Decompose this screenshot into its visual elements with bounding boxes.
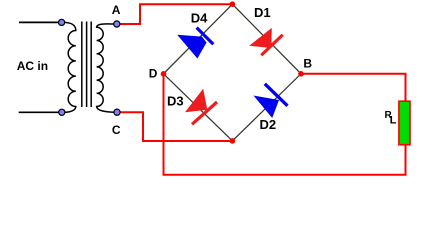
svg-text:AC in: AC in [17,59,48,73]
svg-text:D4: D4 [191,10,208,25]
svg-text:C: C [112,123,121,137]
svg-text:D3: D3 [167,94,184,109]
svg-text:L: L [390,114,397,126]
svg-text:D: D [149,67,158,81]
svg-text:B: B [303,57,312,71]
svg-text:D1: D1 [254,5,271,20]
svg-text:D2: D2 [260,117,277,132]
svg-text:A: A [112,3,121,17]
